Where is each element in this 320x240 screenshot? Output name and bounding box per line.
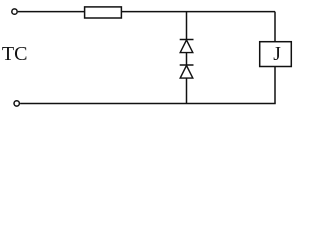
svg-text:J: J (273, 44, 281, 65)
svg-text:TC: TC (2, 43, 28, 65)
